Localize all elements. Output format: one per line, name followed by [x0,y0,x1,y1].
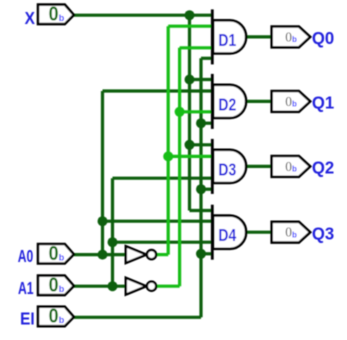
wire /A0 vertical trunk [167,26,170,254]
node EI to D3 [196,184,206,194]
wire /A1 from inverter U2 [156,285,179,288]
svg-text:D4: D4 [218,225,236,245]
svg-text:b: b [292,100,297,109]
wire A0 vertical trunk [101,91,104,255]
svg-text:A1: A1 [18,278,34,298]
wire A0 to D4 in2 [103,220,213,223]
svg-text:D3: D3 [218,159,236,179]
svg-text:EI: EI [20,309,34,329]
node A1 to D4 [108,237,118,247]
output wire D2 to Q1 [245,100,272,103]
output wire D4 to Q3 [245,231,272,234]
svg-text:Q0: Q0 [312,28,335,48]
svg-text:0: 0 [49,306,59,328]
wire X vertical trunk [188,15,191,210]
wire net X (value 0, dark green) [74,15,212,210]
wire EI vertical trunk [199,58,202,317]
wire EI horizontal from pin [74,316,201,319]
input pin A0 [18,243,74,266]
wire A1 vertical trunk [111,178,114,286]
svg-text:b: b [59,315,65,325]
svg-text:b: b [292,230,297,239]
wire net /A0 (value 1, bright green) [156,26,212,254]
node /A1 to D2 [175,107,185,117]
wire /A0 to D3 in2 [168,155,212,158]
node A0 to D4 [98,216,108,226]
wire net /A1 (value 1, bright green) [156,48,212,286]
svg-text:b: b [59,284,65,294]
wire /A1 vertical trunk [178,48,181,286]
and gate D4 [212,205,246,260]
node EI to D2 [196,118,206,128]
svg-text:b: b [59,253,65,263]
wire A1 pin to inverter [74,285,127,288]
wire /A0 to D1 in2 [168,25,212,28]
wire A0 pin to inverter [74,253,127,256]
wire A0 to D2 in2 [103,89,213,92]
node X to D3 [185,140,195,150]
node X to D2 [185,75,195,85]
svg-text:Q1: Q1 [312,93,335,113]
wire X to D2 in1 [190,78,213,81]
output pin Q0 [272,27,335,49]
node A1 branch at pin row [108,281,118,291]
node /A0 to D3 [163,151,173,161]
svg-text:Q3: Q3 [312,223,335,243]
svg-text:A0: A0 [18,246,34,266]
inverter U1 (A0) [126,246,156,263]
svg-text:b: b [292,35,297,44]
wire A1 to D3 in3 [113,177,213,180]
svg-text:X: X [25,8,36,28]
wire EI to D2 in4 [201,122,212,125]
wire /A1 to D2 in3 [180,110,212,113]
wire net A0 (dark green) [74,91,212,255]
output pin Q2 [272,156,335,178]
wire net EI (dark green) [74,58,212,317]
wire EI to D3 in4 [201,188,212,191]
svg-text:0: 0 [49,243,59,265]
wire X to D3 in1 [190,143,213,146]
svg-text:D2: D2 [218,94,236,114]
and gate D1 [212,9,246,64]
wire A1 to D4 in3 [113,241,213,244]
svg-text:0: 0 [49,275,59,297]
input pin A1 [18,275,74,298]
svg-text:b: b [59,13,65,23]
node EI to D4 [196,249,206,259]
svg-text:0: 0 [49,4,59,26]
output pin Q3 [272,222,335,244]
wire /A1 to D1 in3 [180,46,212,49]
output pin Q1 [272,91,335,113]
wire EI to D4 in4 [201,252,212,255]
svg-text:Q2: Q2 [312,158,335,178]
node X branch at top [185,10,195,20]
and gate D2 [212,74,246,129]
svg-text:b: b [292,165,297,174]
input pin EI [20,306,74,329]
svg-text:D1: D1 [218,30,236,50]
node A0 branch at pin row [98,250,108,260]
wire X to D4 in1 [190,209,213,212]
and gate D3 [212,139,246,194]
junction dots bright green [163,107,184,162]
input pin X [25,4,74,28]
output wire D1 to Q0 [245,35,272,38]
junction dots dark green [98,10,207,291]
wire EI to D1 in4 [201,57,212,60]
wire /A0 from inverter U1 [156,253,168,256]
output wire D3 to Q2 [245,165,272,168]
inverter U2 (A1) [126,278,156,295]
wire net A1 (dark green) [74,178,212,286]
wire X horizontal to D1 in1 [74,14,212,17]
